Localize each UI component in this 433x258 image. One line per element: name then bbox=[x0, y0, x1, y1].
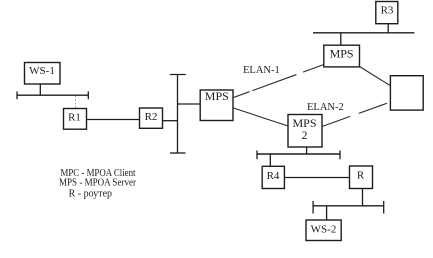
server MPS (middle) bbox=[200, 89, 233, 121]
LAN bus segment middle bbox=[257, 150, 340, 159]
vertical bus bbox=[170, 75, 186, 154]
svg-text:2: 2 bbox=[302, 128, 308, 142]
router R1 bbox=[64, 109, 87, 130]
svg-text:R3: R3 bbox=[381, 5, 394, 17]
server MPS 2 bbox=[288, 115, 322, 148]
router R2 bbox=[140, 108, 163, 128]
net ELAN-1 dashed link MPS to MPS top bbox=[234, 65, 325, 98]
svg-text:ELAN-2: ELAN-2 bbox=[307, 102, 344, 113]
svg-text:R - роутер: R - роутер bbox=[69, 189, 112, 200]
wire MPS top to switch box bbox=[360, 67, 391, 86]
svg-text:R2: R2 bbox=[145, 111, 158, 123]
router R bbox=[350, 166, 373, 189]
svg-text:MPS: MPS bbox=[205, 89, 229, 103]
wire MPS to MPS 2 bbox=[234, 108, 289, 126]
router R4 bbox=[262, 166, 284, 188]
wire lower bus to WS-2 bbox=[326, 206, 328, 220]
wire R1 to R2 bbox=[87, 119, 140, 121]
svg-text:MPS - MPOA Server: MPS - MPOA Server bbox=[59, 178, 137, 189]
workstation WS-2 bbox=[306, 220, 341, 241]
svg-text:ELAN-1: ELAN-1 bbox=[243, 65, 280, 76]
server MPS (top) bbox=[324, 45, 360, 67]
wire R to lower bus bbox=[362, 189, 364, 206]
wire MPS 2 to middle bus bbox=[306, 147, 308, 154]
wire R3 to top bus bbox=[387, 24, 389, 33]
svg-text:WS-2: WS-2 bbox=[311, 224, 337, 236]
svg-text:R: R bbox=[357, 170, 365, 182]
LAN bus segment left bbox=[17, 91, 88, 99]
router R3 bbox=[376, 2, 398, 24]
wire middle bus to R4 bbox=[269, 154, 271, 166]
wire R4 to R bbox=[284, 177, 349, 179]
LAN bus segment lower bbox=[313, 201, 384, 214]
wire WS-1 to LAN bus bbox=[39, 84, 41, 95]
svg-text:R4: R4 bbox=[267, 170, 280, 182]
net ELAN-2 dashed link MPS 2 to switch box bbox=[322, 102, 390, 127]
wire bus to MPS bbox=[178, 103, 201, 105]
svg-text:WS-1: WS-1 bbox=[29, 65, 55, 77]
wire bus to R1 (faint dotted) bbox=[75, 96, 77, 108]
wire top bus to MPS top bbox=[340, 33, 342, 45]
switch box (unlabeled) bbox=[390, 76, 423, 110]
workstation WS-1 bbox=[25, 63, 61, 85]
wire R2 to ATM bus bbox=[163, 120, 178, 122]
svg-text:R1: R1 bbox=[68, 112, 81, 124]
LAN bus segment top bbox=[313, 32, 414, 34]
svg-text:MPS: MPS bbox=[330, 47, 354, 61]
